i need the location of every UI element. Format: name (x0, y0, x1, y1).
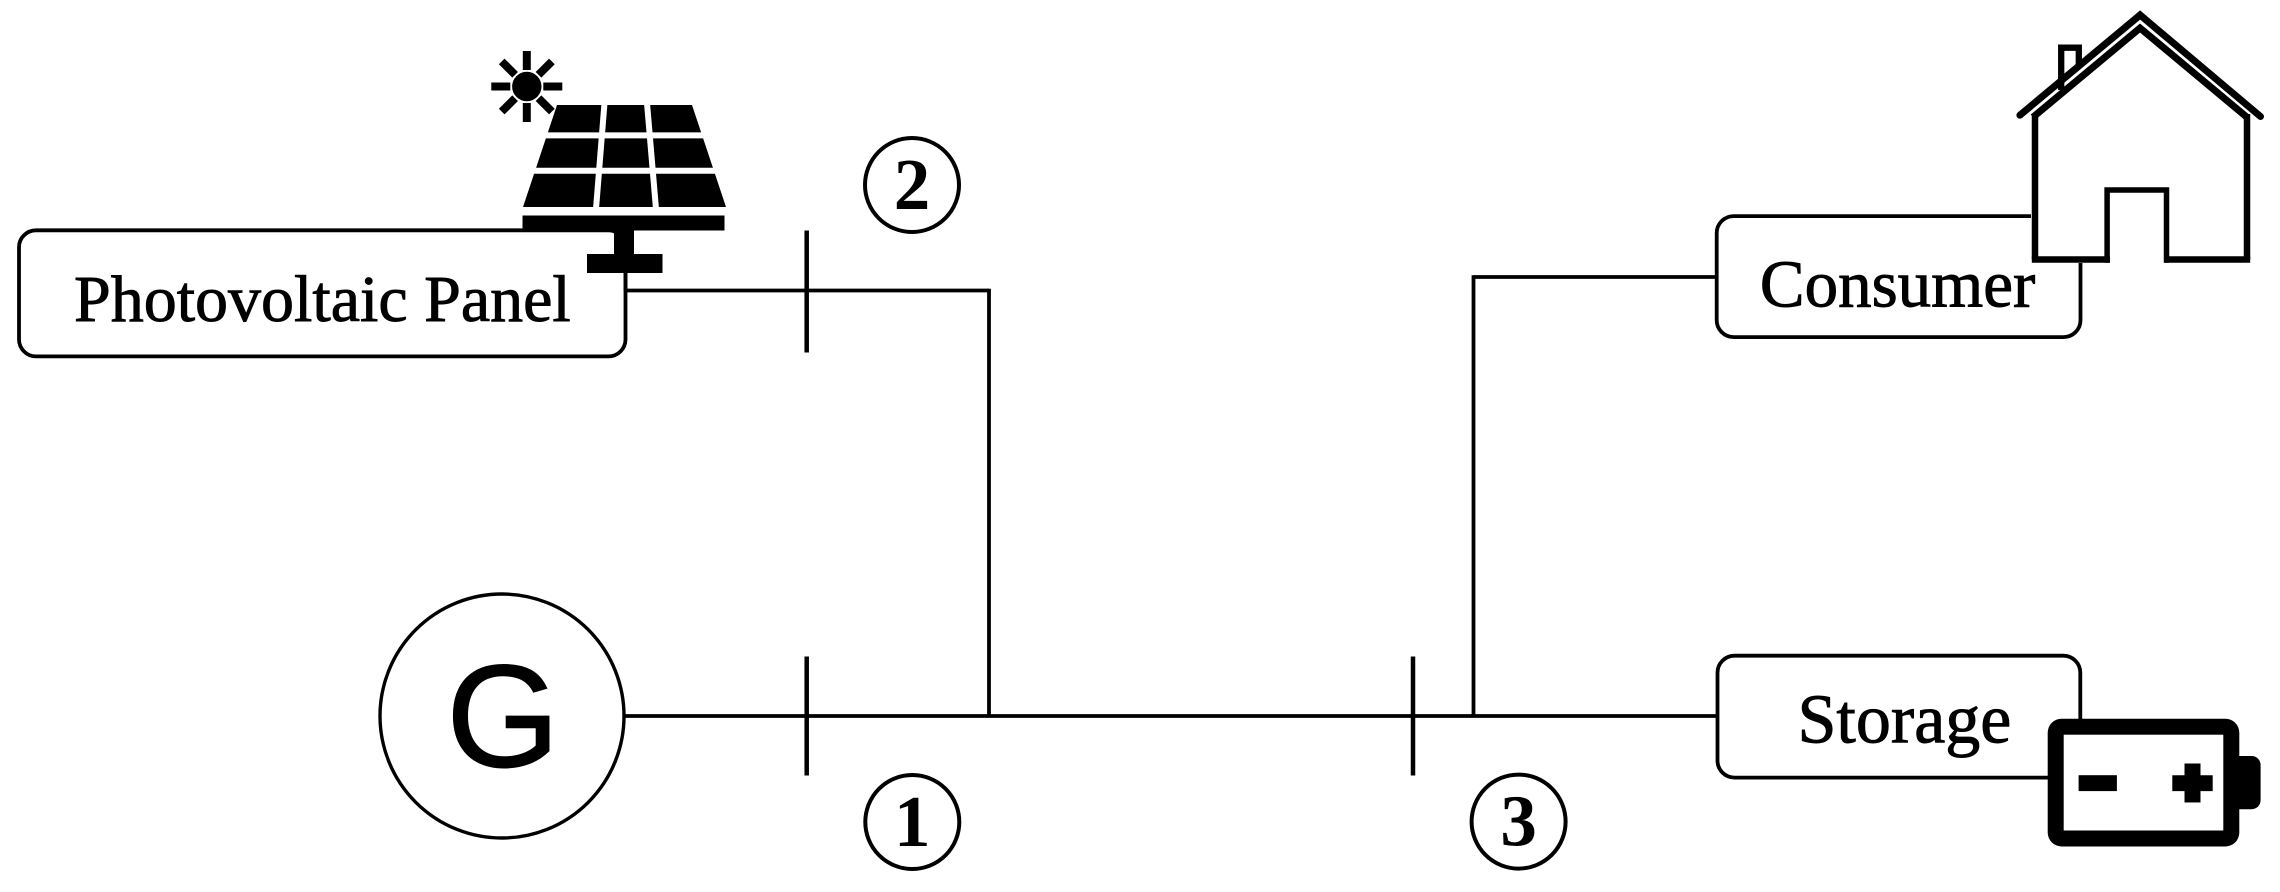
node circle 1 (865, 775, 959, 869)
battery terminal nub (2225, 756, 2261, 809)
house floor right segment (2164, 256, 2250, 263)
node circle 2 (865, 138, 959, 232)
house floor left segment (2032, 256, 2110, 263)
battery minus sign (2079, 775, 2117, 791)
box Storage (1718, 656, 2081, 778)
battery body (2048, 719, 2240, 847)
solar panel icon (514, 103, 734, 291)
panel stub wire to box edge (624, 273, 628, 291)
bus bar 2 tick (804, 231, 809, 353)
house fill (2031, 22, 2249, 263)
house roof outer line (2020, 15, 2261, 117)
house left wall (2032, 114, 2039, 260)
svg-text:3: 3 (1500, 781, 1537, 862)
panel stand foot (587, 254, 663, 273)
box Consumer (1717, 216, 2081, 337)
panel trapezoid cells (523, 105, 726, 207)
wire main bottom bus G to Storage (624, 714, 1718, 718)
bus bar 3 tick (1411, 657, 1416, 776)
wire consumer horizontal (1474, 275, 1717, 279)
wire vertical from bus-2 line down to main bus (987, 289, 991, 716)
house door (2107, 190, 2166, 263)
svg-text:Storage: Storage (1798, 682, 2012, 759)
node circle 3 (1472, 775, 1566, 869)
bus bar 1 tick (804, 657, 809, 776)
house roof inner line (2033, 28, 2247, 117)
house right wall (2244, 114, 2251, 260)
svg-text:2: 2 (894, 144, 931, 225)
svg-text:Consumer: Consumer (1760, 248, 2035, 322)
svg-text:G: G (446, 635, 560, 798)
svg-text:Photovoltaic Panel: Photovoltaic Panel (74, 263, 571, 336)
battery icon (2048, 719, 2261, 847)
house icon (2020, 15, 2261, 263)
panel stand post (614, 231, 634, 256)
wire vertical consumer down to main bus (1472, 275, 1476, 716)
svg-text:1: 1 (894, 781, 931, 862)
sun icon (491, 51, 562, 122)
wire PV box to bus 2 corner (626, 289, 990, 293)
box Photovoltaic Panel (19, 230, 626, 356)
panel bottom bar (523, 216, 725, 231)
battery plus sign (2172, 764, 2212, 803)
battery inner (2064, 735, 2224, 831)
house chimney (2061, 48, 2079, 90)
generator G circle (380, 594, 624, 838)
